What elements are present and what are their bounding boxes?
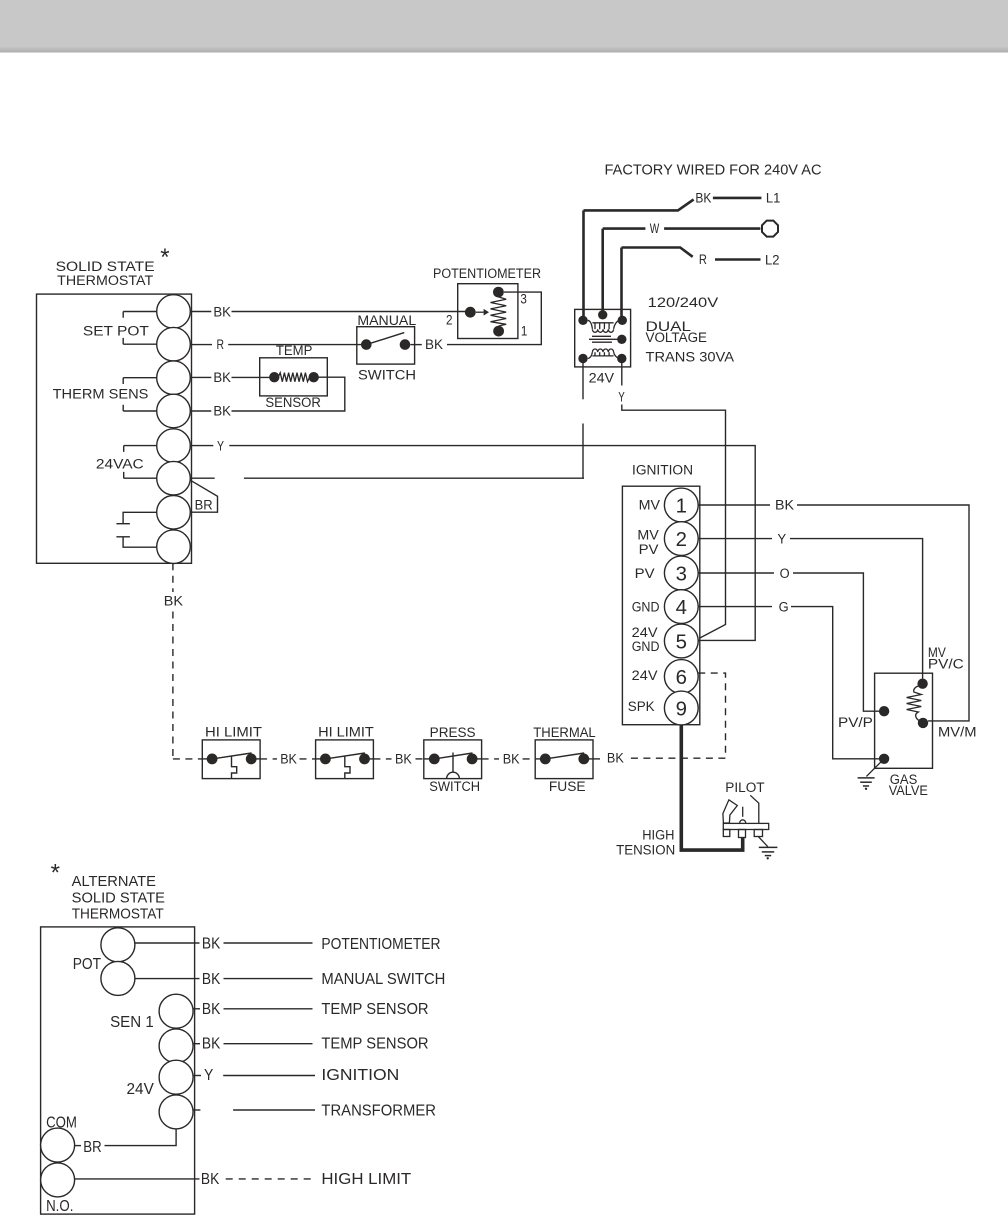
svg-text:HI LIMIT: HI LIMIT [205,724,262,739]
svg-text:PRESS: PRESS [430,725,476,740]
svg-text:SWITCH: SWITCH [358,368,416,383]
svg-text:PV/P: PV/P [838,715,873,730]
svg-text:W: W [650,221,660,236]
svg-text:BK: BK [202,1036,221,1053]
svg-text:POTENTIOMETER: POTENTIOMETER [433,266,541,281]
svg-text:BK: BK [607,751,624,766]
svg-text:24V: 24V [632,625,658,640]
svg-text:120/240V: 120/240V [648,295,719,310]
svg-text:SPK: SPK [628,699,655,714]
svg-text:HIGH LIMIT: HIGH LIMIT [321,1171,411,1188]
svg-text:2: 2 [446,313,453,328]
svg-text:BK: BK [695,191,711,206]
svg-text:BK: BK [503,752,520,767]
svg-text:L2: L2 [765,252,780,267]
svg-text:GND: GND [632,599,660,614]
svg-text:BK: BK [213,304,231,319]
svg-text:BK: BK [395,752,412,767]
svg-text:24V: 24V [632,668,658,683]
svg-text:5: 5 [676,631,687,653]
svg-text:4: 4 [676,597,687,619]
svg-text:HIGH: HIGH [642,828,674,843]
svg-text:BK: BK [202,935,221,952]
svg-text:MANUAL SWITCH: MANUAL SWITCH [321,971,445,988]
svg-text:TRANSFORMER: TRANSFORMER [321,1102,436,1119]
svg-text:BR: BR [195,497,213,512]
svg-text:MANUAL: MANUAL [357,313,416,328]
svg-text:24V: 24V [127,1081,155,1098]
svg-text:TENSION: TENSION [616,842,675,857]
svg-text:3: 3 [520,292,527,307]
svg-text:6: 6 [676,667,687,689]
svg-text:24V: 24V [589,371,615,386]
svg-text:HI LIMIT: HI LIMIT [318,724,374,739]
svg-text:TEMP: TEMP [276,343,313,358]
svg-text:BK: BK [213,370,231,385]
svg-text:24VAC: 24VAC [96,457,144,472]
svg-text:L1: L1 [766,191,781,206]
svg-text:2: 2 [676,529,687,551]
svg-text:R: R [699,252,707,267]
svg-text:G: G [779,600,789,615]
svg-text:IGNITION: IGNITION [632,463,693,478]
svg-text:FUSE: FUSE [549,779,586,794]
svg-text:BR: BR [83,1139,101,1156]
svg-text:N.O.: N.O. [46,1198,73,1215]
svg-text:3: 3 [676,563,687,585]
svg-text:VALVE: VALVE [889,783,928,798]
svg-text:BK: BK [202,1001,221,1018]
svg-text:R: R [217,337,225,352]
svg-text:MV: MV [637,528,658,543]
svg-text:Y: Y [217,438,224,453]
svg-text:MV/M: MV/M [938,725,977,740]
svg-text:PV/C: PV/C [928,657,964,672]
svg-text:BK: BK [201,1171,220,1188]
svg-text:POT: POT [73,956,102,973]
svg-text:THERMOSTAT: THERMOSTAT [57,273,153,288]
svg-text:TEMP SENSOR: TEMP SENSOR [321,1001,428,1018]
svg-text:Y: Y [204,1067,214,1084]
svg-text:FACTORY WIRED FOR 240V AC: FACTORY WIRED FOR 240V AC [605,162,822,179]
svg-text:Y: Y [618,390,625,405]
svg-text:IGNITION: IGNITION [321,1067,399,1084]
svg-text:SEN 1: SEN 1 [110,1014,154,1031]
svg-text:GND: GND [632,639,660,654]
svg-text:POTENTIOMETER: POTENTIOMETER [321,936,440,953]
svg-text:TEMP SENSOR: TEMP SENSOR [321,1036,428,1053]
svg-text:VOLTAGE: VOLTAGE [646,330,708,345]
svg-text:THERM SENS: THERM SENS [53,387,149,402]
svg-text:PV: PV [639,542,659,557]
svg-text:*: * [51,859,60,886]
svg-text:THERMAL: THERMAL [533,725,595,740]
svg-text:SWITCH: SWITCH [429,779,480,794]
svg-text:ALTERNATE: ALTERNATE [72,874,156,890]
svg-text:COM: COM [46,1115,77,1132]
svg-text:1: 1 [676,495,687,517]
svg-text:MV: MV [639,498,660,513]
svg-text:TRANS 30VA: TRANS 30VA [646,350,735,365]
svg-text:PV: PV [635,566,655,581]
svg-text:*: * [160,244,169,271]
svg-text:BK: BK [280,752,297,767]
svg-text:BK: BK [775,497,794,512]
svg-text:BK: BK [425,337,443,352]
svg-text:9: 9 [676,698,687,720]
svg-text:SENSOR: SENSOR [265,395,321,410]
svg-text:SOLID STATE: SOLID STATE [72,890,165,906]
svg-text:BK: BK [164,594,183,609]
svg-text:THERMOSTAT: THERMOSTAT [72,906,164,922]
svg-text:SET POT: SET POT [83,323,149,338]
svg-text:BK: BK [202,971,221,988]
svg-text:SOLID STATE: SOLID STATE [56,259,155,274]
svg-text:Y: Y [778,531,787,546]
svg-text:BK: BK [213,404,231,419]
svg-text:PILOT: PILOT [725,780,764,795]
svg-text:O: O [780,566,790,581]
svg-text:1: 1 [521,323,528,338]
